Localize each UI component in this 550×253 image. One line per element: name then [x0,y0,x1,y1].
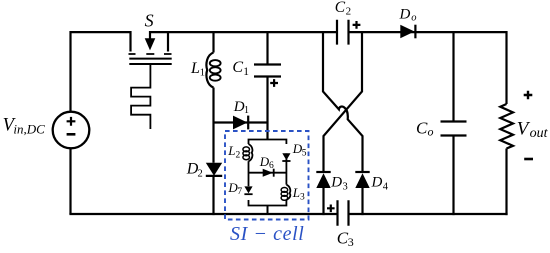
label D1 [233,99,249,116]
wire Vin bottom lead [69,148,71,214]
capacitor C2 plus sign [353,21,361,29]
switch S gate bar [129,63,171,65]
svg-text:C: C [335,0,346,16]
capacitor Co [441,122,467,136]
label L3 [292,185,305,202]
switch S channel bar [129,58,171,60]
switch S arrow head [145,38,156,50]
diode Do [400,25,415,39]
svg-text:7: 7 [237,187,242,197]
wire SI-cell bottom stub [267,206,269,216]
diode D3 [316,172,330,215]
label Do [399,7,417,24]
resistor load [500,104,513,149]
svg-text:3: 3 [300,193,305,203]
svg-text:D: D [233,99,245,115]
wire crossover NW-SE with hop [323,31,363,172]
inductor L1 [206,53,220,88]
label Vin,DC [3,116,46,137]
wire D1 horizontal [214,121,268,123]
capacitor C1 [254,65,281,77]
voltage source Vin,DC [53,112,90,149]
svg-text:4: 4 [383,181,389,192]
load plus sign [524,91,533,100]
svg-text:L: L [292,185,300,200]
svg-text:S: S [145,11,154,31]
label D3 [330,175,348,193]
svg-text:L: L [227,143,235,158]
wire L1 to D1 to D2 branch [212,88,214,163]
label D6 [259,154,274,171]
svg-text:1: 1 [200,68,205,79]
svg-text:C: C [232,59,243,76]
diode D4 [355,172,369,215]
label D5 [292,141,307,158]
wire C1 top stub [266,31,268,65]
svg-text:D: D [399,7,411,23]
wire top-left segment [71,31,131,33]
svg-text:2: 2 [198,168,203,179]
wire SI-cell left branch [248,161,250,186]
svg-text:o: o [411,12,416,23]
label D2 [186,160,203,179]
capacitor C3 plus sign [327,205,335,213]
wire crossover NE-SW [324,31,363,172]
wire L1 top stub [212,31,214,53]
label D7 [227,180,242,197]
wire bottom-right segment [349,213,508,215]
svg-text:2: 2 [236,150,241,160]
switch S gate square-wave drive [131,64,150,129]
inductor L2 [243,144,253,161]
label L1 [190,60,205,79]
label C3 [337,228,354,248]
inductor L3 [281,185,290,201]
label Co [416,118,434,138]
wire D2 bottom lead [212,176,214,215]
wire SI-cell bottom rail [249,200,287,206]
label L2 [227,143,240,160]
svg-text:2: 2 [346,6,352,18]
svg-text:D: D [330,175,342,191]
wire top-middle segment [150,31,337,33]
wire SI-cell top rail [249,140,287,145]
switch S right stub [167,31,169,52]
svg-text:o: o [428,125,434,139]
switch S (MOSFET) left stub [129,31,131,52]
label Vout [517,118,549,141]
svg-text:3: 3 [348,235,354,248]
wire Co top lead [452,31,454,122]
source minus sign [67,133,76,136]
capacitor C1 plus sign [270,79,278,87]
wire load branch bottom [505,149,507,216]
capacitor C2 [337,20,349,45]
diode D1 [233,116,248,130]
svg-text:out: out [530,126,549,141]
diode D6 [263,169,274,177]
wire Co bottom lead [452,136,454,216]
capacitor C3 [338,200,349,226]
wire load branch top [505,31,507,104]
SI-cell dashed box [225,131,309,220]
label D4 [371,175,389,193]
label C1 [232,59,249,78]
svg-text:6: 6 [269,161,274,171]
svg-text:1: 1 [243,66,249,78]
svg-text:3: 3 [343,181,348,192]
wire SI-cell middle rail [249,172,287,174]
wire bottom-left segment [69,213,337,215]
diode D7 [244,186,252,194]
svg-text:C: C [416,118,428,137]
wire SI-cell right branch [285,153,287,184]
diode D2 [206,163,222,176]
svg-text:1: 1 [244,105,249,116]
diode D5 [282,153,290,161]
wire Vin top lead [69,31,71,112]
svg-text:5: 5 [302,149,307,159]
source plus sign [67,117,76,126]
switch S arrow stub [149,31,151,40]
wire top-right segment [349,31,507,33]
svg-text:D: D [371,175,383,191]
label C2 [335,0,351,18]
svg-text:L: L [190,60,200,77]
svg-text:SI − cell: SI − cell [230,223,304,245]
svg-text:in,DC: in,DC [13,121,45,136]
load minus sign [524,158,533,161]
switch S channel contact dashes [129,53,172,55]
wire C1 bottom to SI-cell top [266,77,268,140]
